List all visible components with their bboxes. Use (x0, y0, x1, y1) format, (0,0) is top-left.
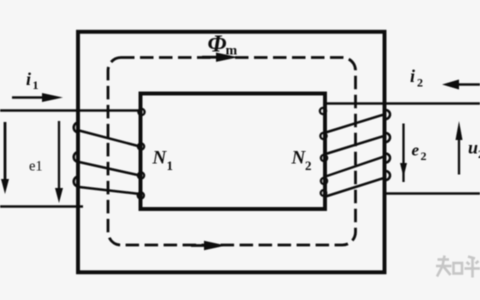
voltage arrow u1 (left edge, pointing down) (1, 122, 9, 194)
svg-text:2: 2 (305, 158, 312, 173)
watermark zhihu (知乎) (436, 256, 480, 278)
svg-text:e1: e1 (29, 159, 43, 175)
svg-text:2: 2 (421, 149, 427, 163)
wire: secondary bottom lead (384, 192, 480, 195)
svg-text:1: 1 (33, 78, 39, 92)
flux path phi-m dashed loop (108, 58, 356, 246)
current arrow i2 (442, 80, 480, 90)
winding N1 turns (diagonals across left leg) (79, 131, 140, 195)
wire: secondary top lead (324, 102, 480, 105)
svg-text:e: e (412, 141, 420, 160)
svg-text:u: u (468, 138, 478, 158)
svg-text:i: i (410, 66, 415, 86)
svg-text:1: 1 (167, 158, 174, 173)
winding N2 loop arcs on outer-right limb (386, 110, 391, 180)
wire: primary top lead (0, 109, 141, 112)
winding N2 loop circles on window edge (320, 108, 327, 196)
svg-text:Φ: Φ (208, 32, 227, 58)
winding N1 loop circles on window edge (138, 109, 145, 199)
core window inner rectangle (141, 94, 326, 210)
emf arrow e1 (pointing down) (55, 121, 63, 203)
winding N1 loop arcs on outer-left limb (74, 123, 79, 187)
emf arrow e2 (pointing down) (400, 124, 407, 183)
svg-text:2: 2 (417, 76, 423, 90)
current arrow i1 (12, 93, 63, 102)
flux arrow top (202, 53, 238, 62)
svg-text:N: N (152, 148, 168, 169)
wire: primary bottom lead (0, 205, 83, 208)
svg-text:i: i (26, 69, 31, 89)
winding N2 turns (diagonals across right leg) (324, 114, 386, 197)
transformer core outer edge (78, 32, 385, 272)
voltage arrow u2 (pointing up) (456, 121, 463, 175)
svg-text:m: m (226, 44, 238, 59)
flux arrow bottom (191, 241, 226, 250)
